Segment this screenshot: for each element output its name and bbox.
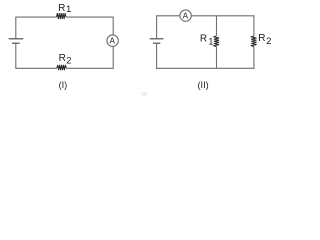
wire: circuit I top wire left segment xyxy=(16,16,57,18)
stray faint color dot artifact xyxy=(142,92,147,95)
svg-text:R: R xyxy=(59,53,66,64)
ammeter A circuit II circle xyxy=(180,10,191,21)
wire: circuit I right wire upper segment xyxy=(112,17,114,35)
resistor R2 circuit II zigzag xyxy=(251,36,256,47)
battery cell circuit I: long positive plate xyxy=(9,38,24,40)
wire: circuit II top wire left segment xyxy=(157,15,180,17)
ammeter A circuit I circle xyxy=(107,35,119,47)
svg-text:2: 2 xyxy=(266,36,271,47)
wire: circuit II middle branch lower segment xyxy=(216,47,218,69)
battery cell circuit I: short negative plate xyxy=(12,42,20,44)
svg-text:A: A xyxy=(109,36,115,45)
resistor R1 circuit II zigzag xyxy=(214,36,219,47)
wire: circuit I right wire lower segment xyxy=(112,46,114,68)
svg-text:(I): (I) xyxy=(59,80,68,90)
wire: circuit II middle branch upper segment xyxy=(216,16,218,36)
resistor R1 circuit I zigzag xyxy=(56,13,66,19)
svg-text:R: R xyxy=(200,34,207,45)
svg-text:A: A xyxy=(183,11,189,20)
wire: circuit II left wire upper segment xyxy=(156,15,158,38)
svg-text:R: R xyxy=(258,33,265,44)
wire: circuit II top wire right segment xyxy=(191,15,254,17)
wire: circuit I left wire upper segment xyxy=(15,17,17,39)
svg-text:1: 1 xyxy=(66,4,71,15)
wire: circuit I bottom wire left segment xyxy=(16,67,57,69)
resistor R2 circuit I zigzag xyxy=(57,65,67,70)
svg-text:1: 1 xyxy=(208,36,213,46)
wire: circuit II right wire upper segment xyxy=(253,15,255,36)
wire: circuit II right wire lower segment xyxy=(253,47,255,69)
wire: circuit I top wire right segment xyxy=(66,16,113,18)
battery cell circuit II: long positive plate xyxy=(150,38,164,40)
wire: circuit I left wire lower segment xyxy=(15,44,17,69)
wire: circuit II bottom wire xyxy=(156,67,254,69)
svg-text:2: 2 xyxy=(66,56,71,66)
svg-text:(II): (II) xyxy=(197,80,208,90)
wire: circuit II left wire lower segment xyxy=(156,44,158,69)
battery cell circuit II: short negative plate xyxy=(153,42,160,44)
wire: circuit I bottom wire right segment xyxy=(66,67,113,69)
svg-text:R: R xyxy=(58,3,65,14)
